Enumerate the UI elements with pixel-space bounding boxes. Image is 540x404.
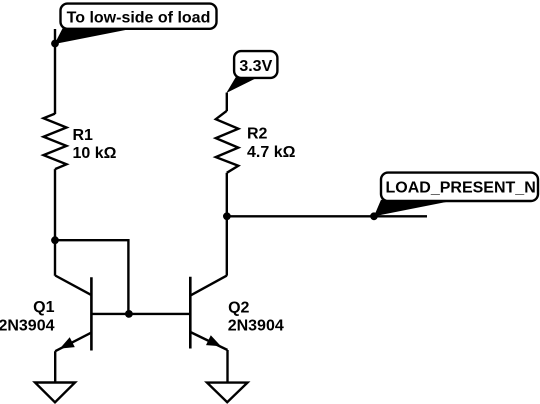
wire output node to Q2 collector (226, 216, 228, 275)
svg-text:R2: R2 (247, 126, 268, 143)
wire Q2 emitter to ground (226, 350, 228, 383)
net flag LOAD_PRESENT_N (374, 173, 538, 217)
wire 3.3V to R2 (226, 93, 228, 111)
svg-text:2N3904: 2N3904 (228, 317, 284, 334)
wire R1 bottom to Q1 collector (54, 169, 56, 276)
junction at net flag tap (370, 212, 378, 220)
junction at base wire (125, 310, 133, 318)
svg-text:2N3904: 2N3904 (0, 318, 55, 335)
wire R2 bottom to output node (226, 173, 228, 217)
svg-text:4.7 kΩ: 4.7 kΩ (247, 144, 296, 161)
net flag To low-side of load (55, 4, 217, 44)
svg-text:Q1: Q1 (33, 299, 54, 316)
resistor R2 (216, 111, 239, 173)
power flag 3.3V (226, 51, 277, 93)
transistor Q2 (190, 276, 227, 350)
transistor Q1 (55, 276, 91, 352)
junction collector-base tie (51, 236, 59, 244)
svg-text:To low-side of load: To low-side of load (67, 10, 211, 27)
wire output net LOAD_PRESENT_N (227, 215, 427, 217)
junction output node at R2 (223, 212, 231, 220)
svg-text:Q2: Q2 (228, 300, 249, 317)
wire Q1 emitter to ground (54, 351, 56, 382)
svg-text:R1: R1 (73, 127, 94, 144)
svg-text:3.3V: 3.3V (239, 58, 272, 75)
wire base rail Q1 to Q2 (91, 313, 190, 315)
junction node at load flag (51, 40, 59, 48)
svg-text:LOAD_PRESENT_N: LOAD_PRESENT_N (386, 180, 536, 197)
ground (Q2 emitter) (207, 383, 248, 403)
wire collector node to base node (55, 240, 128, 314)
wire from load flag through node to R1 (54, 29, 56, 114)
svg-text:10 kΩ: 10 kΩ (73, 145, 117, 162)
resistor R1 (44, 114, 67, 170)
ground (Q1 emitter) (35, 383, 75, 403)
